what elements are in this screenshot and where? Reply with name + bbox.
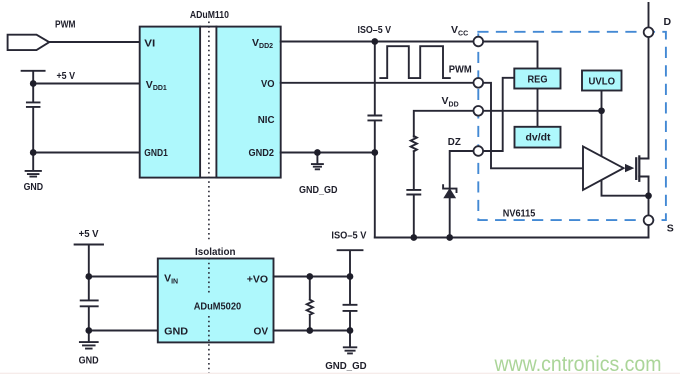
svg-text:GND1: GND1 [144,147,168,159]
svg-text:GND_GD: GND_GD [299,184,338,196]
ADuM5020 box [158,259,274,343]
wire +5V to VIN [89,276,158,278]
GND_GD rail [375,237,649,239]
wire VO to PWM [281,82,474,84]
PWM square wave [380,46,450,78]
wire zener to rail [449,197,451,237]
wire UVLO down [602,91,649,196]
wire GND1 [33,152,140,154]
zener diode DZ [443,185,456,192]
wire source to S [648,177,650,238]
wire REG to dv/dt [537,89,539,127]
wire ISO vertical to rail [374,153,376,238]
wire PWM to VI [49,41,140,43]
terminal D [644,27,654,37]
wire VCC to REG [483,42,537,69]
node +VO R2 [306,273,313,280]
ADuM110 right half [216,27,280,178]
node VDD/UVLO [598,107,605,114]
svg-text:S: S [667,223,674,235]
capacitor C4 [81,277,98,331]
capacitor C2 iso [368,42,381,153]
svg-text:GND: GND [24,181,44,193]
node +5V/VDD1 [30,80,37,87]
svg-text:Isolation: Isolation [195,246,236,258]
+5V supply bar [22,71,45,84]
MOSFET Q1 [635,158,637,179]
ground GND bottom left [80,331,98,349]
svg-text:ISO–5 V: ISO–5 V [331,229,366,241]
svg-text:D: D [664,16,672,28]
bottom ISO-5V bar [338,250,363,276]
terminal PWM [474,78,484,88]
svg-text:+VO: +VO [247,274,268,286]
node GND bottom [85,327,92,334]
wire VDD left segment [414,111,474,137]
svg-text:REG: REG [528,73,548,85]
svg-text:NIC: NIC [258,114,275,126]
svg-text:dv/dt: dv/dt [526,132,551,144]
terminal VCC [474,37,484,47]
bottom +5V bar [75,245,103,277]
terminal DZ [474,146,484,156]
capacitor C5 [344,277,357,331]
node rail R1 [410,234,417,241]
wire PWM to amp [483,83,584,169]
wire DZ to zener [450,151,474,187]
svg-text:PWM: PWM [449,64,472,76]
svg-text:VI: VI [144,37,155,49]
capacitor C1 [27,84,40,153]
node +VO cap [347,273,354,280]
UVLO box [582,71,622,91]
capacitor C3 [407,151,420,237]
terminal VDD [474,106,484,116]
REG box [514,69,560,89]
op-amp driver triangle [583,146,624,190]
wire VDD right segment [483,110,602,112]
ADuM110 left half [140,27,200,178]
ADuM110 gap border [200,27,216,178]
svg-text:VO: VO [261,78,275,90]
svg-text:ADuM5020: ADuM5020 [194,300,242,312]
node VIN [85,273,92,280]
node source [645,192,652,199]
node GND2 b [371,149,378,156]
svg-text:ADuM110: ADuM110 [190,9,229,21]
svg-text:DZ: DZ [448,136,462,148]
node rail DZ [446,234,453,241]
svg-text:+5 V: +5 V [57,70,76,82]
node OV cap [347,327,354,334]
svg-text:GND_GD: GND_GD [325,360,367,372]
svg-text:GND: GND [79,354,99,366]
svg-text:PWM: PWM [55,18,76,30]
svg-text:GND2: GND2 [249,147,275,159]
ground GND_GD upper [312,153,323,170]
wire +5V to VDD1 [33,83,140,85]
wire VDD2 to VCC [281,41,474,43]
wire GND2 [281,152,375,154]
resistor R1 [411,136,417,151]
ground GND_GD bottom [344,331,357,354]
wire +VO right [274,276,351,278]
resistor R2 [307,277,313,331]
svg-text:+5 V: +5 V [79,228,99,240]
arrowhead to gate [625,164,634,172]
dv/dt box [515,127,561,148]
node GND2 a [314,149,321,156]
svg-text:ISO–5 V: ISO–5 V [358,24,392,36]
bottom artifact line [0,372,680,374]
wire GND to box [89,330,158,332]
node GND1 [30,149,37,156]
svg-text:OV: OV [254,326,269,338]
isolation dotted line ADuM110 [208,22,210,374]
wire drain up to D [648,3,650,159]
terminal S [644,215,654,225]
svg-text:NV6115: NV6115 [503,208,536,220]
ground GND left [26,153,41,177]
PWM input connector [8,35,50,50]
wire DZ to REG [483,78,515,151]
svg-text:www.cntronics.com: www.cntronics.com [494,352,662,376]
svg-text:GND: GND [164,326,188,338]
node ISO-5V [371,38,378,45]
node OV R2 [306,327,313,334]
svg-text:UVLO: UVLO [589,75,616,87]
NV6115 dashed box [478,32,666,220]
wire OV right [274,330,351,332]
